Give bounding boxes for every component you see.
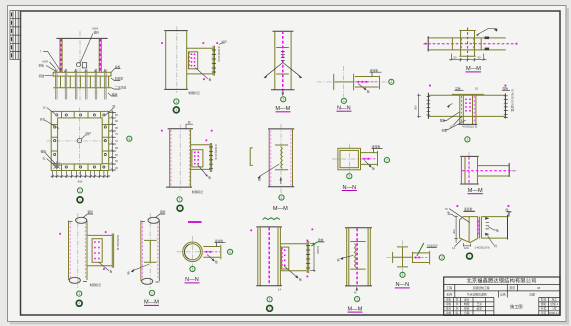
svg-text:1: 1 [356,297,358,301]
anchor bolt shafts [56,69,105,100]
right leader [488,227,496,230]
svg-text:工程: 工程 [446,286,452,290]
svg-text:660: 660 [78,180,83,184]
top-right leader [156,214,166,218]
detail 13: pipe column M-M with inner I-section [127,210,166,306]
leader from shear plate [198,165,208,177]
svg-text:N—N: N—N [342,185,356,191]
svg-text:1: 1 [466,138,468,142]
plate right [203,247,220,258]
leader from shear plate [196,68,208,79]
svg-text:10-M20(10.9)高强: 10-M20(10.9)高强 [511,89,515,112]
centerline [176,27,178,94]
centerline [77,213,79,288]
svg-text:1: 1 [348,175,350,179]
svg-text:北京福鑫腾达钢结构有限公司: 北京福鑫腾达钢结构有限公司 [466,277,536,285]
svg-text:开孔: 开孔 [40,118,46,122]
down arrow [282,92,285,96]
svg-text:4-M20(10.9): 4-M20(10.9) [462,125,477,129]
column bottom [166,186,192,188]
svg-text:图号: 图号 [510,286,516,290]
green circle [281,97,286,102]
svg-text:设计: 设计 [464,298,470,302]
pipe walls [141,221,160,282]
H-beam flanges [334,74,354,91]
centerlines [332,144,368,175]
svg-text:肋: 肋 [258,177,261,181]
magenta dashed inside walls [70,223,85,279]
svg-text:14: 14 [452,246,456,250]
detail 4: M-M section brace member [264,31,303,112]
svg-text:比例: 比例 [500,292,506,296]
plate right [412,253,429,263]
svg-text:校核: 校核 [464,307,470,311]
svg-text:10@100: 10@100 [427,244,438,248]
beam end plate with bolt ticks [210,143,211,172]
center column stub below [460,95,476,124]
svg-text:制图标记: 制图标记 [192,190,203,194]
svg-text:板: 板 [367,89,370,93]
svg-text:50: 50 [453,56,457,60]
anchor detail starburst in corner cell [53,161,62,170]
svg-text:2: 2 [390,80,392,84]
svg-text:1: 1 [78,292,80,296]
green circle below [190,266,195,271]
label above with elbow [215,243,226,247]
inner lines [260,227,278,286]
svg-text:板: 板 [208,176,211,180]
column top cap [164,30,188,32]
magenta dashed inside walls [143,223,158,280]
svg-text:M—M: M—M [468,188,483,194]
top-right leader [186,124,193,129]
svg-text:1: 1 [402,273,404,277]
detail 3: column with beam bracket, row 2 [161,121,218,212]
beam flanges [191,145,211,170]
svg-text:施工: 施工 [552,298,558,302]
inner line [464,156,466,184]
top-right leader [83,214,93,218]
column sides with weld dashes [170,129,191,187]
green circle below [341,98,346,103]
centerline magenta bold [268,228,270,286]
leader left [342,255,353,258]
right end plate with ticks and vertical text [504,94,506,119]
svg-text:8-M20: 8-M20 [316,246,320,254]
plate end bar [429,251,431,265]
top cap [268,128,294,130]
svg-text:100: 100 [464,246,469,250]
magenta horizontal centerline [424,43,517,45]
svg-text:2008-1-7: 2008-1-7 [549,311,560,315]
left dim [455,216,458,243]
dark green bubble [467,253,473,259]
svg-text:1: 1 [282,98,284,102]
magenta dashed edges [271,131,291,186]
bolts 2 cols [465,99,471,112]
magenta dots [59,231,106,270]
green leader [417,243,437,256]
member sides [269,129,292,187]
magenta centerline with bolts [414,257,430,259]
bold magenta centerline [282,31,284,92]
svg-text:2: 2 [441,256,443,260]
svg-text:第页: 第页 [541,311,547,315]
diagonal leader [358,84,365,90]
bolt marks right [485,37,490,51]
beam lines right [481,217,507,239]
stray label underline [188,221,202,223]
svg-text:N—N: N—N [185,277,199,283]
left dimension [417,94,421,119]
stiffener ribs below plate [56,76,109,88]
svg-text:制图: 制图 [464,302,470,306]
H-beam web [335,81,354,83]
detail 8: M-M column with beam right [460,152,517,194]
beam end bar [508,163,510,177]
anchor bolt nuts above plate [54,69,106,72]
plate end bar [220,245,222,260]
svg-text:施工图: 施工图 [510,303,523,310]
column bottom [256,285,282,287]
svg-text:1: 1 [151,291,153,295]
svg-text:张: 张 [456,298,459,302]
svg-text:M24: M24 [86,131,92,135]
stiffener ticks [350,242,365,270]
detail 12: pipe column with beam bracket [59,210,120,306]
detail 1: column base elevation with anchor bolts [39,27,127,102]
title block [444,277,560,316]
centerline [179,125,181,191]
green circle right [384,158,389,163]
plate right [361,153,378,165]
gusset plate [355,77,379,88]
column bottom [164,88,188,90]
svg-text:1: 1 [343,99,345,103]
leaders below left [444,112,467,130]
svg-text:肋: 肋 [506,208,509,212]
svg-text:日期: 日期 [464,311,470,315]
detail 16: M-M member with weld zigzag [337,228,372,313]
green circle right [439,255,444,260]
leader [207,255,214,261]
magenta horizontal centerline [462,170,516,172]
beam left end bar [427,36,429,51]
right leaders and labels [108,69,121,96]
svg-text:8-M20(10.9): 8-M20(10.9) [217,47,221,62]
diagonal leader [260,164,280,176]
svg-text:1: 1 [281,196,283,200]
grout line [53,87,111,89]
magenta vertical centerline [468,157,470,184]
svg-text:阶段: 阶段 [541,298,547,302]
svg-text:08: 08 [537,286,541,290]
green circle below [347,174,352,179]
magenta dots [429,85,506,87]
cruciform vertical web [402,247,404,267]
pipe ring [183,242,203,262]
bottom dimension extension lines and dim line [53,171,108,178]
svg-text:王某: 王某 [477,302,483,306]
bottom-left leaders [45,152,56,166]
svg-text:底板: 底板 [115,65,121,69]
svg-text:李: 李 [456,302,459,306]
column top cut line [56,37,107,39]
svg-text:1张: 1张 [552,307,556,311]
weld zigzag [355,244,357,268]
signature strip (top-left rotated table) [10,11,21,60]
svg-text:4b: 4b [447,211,451,215]
svg-text:盖板: 盖板 [455,87,461,91]
cruciform horizontal web [393,256,413,258]
magenta centerline with bolts [362,158,378,160]
magenta dots [250,229,313,278]
svg-text:板: 板 [372,166,375,170]
pipe walls [69,221,88,281]
detail 11: N-N box tube with plate [332,144,390,191]
magenta dashed verticals [462,96,475,124]
green circle and dark bubble [177,197,182,202]
svg-text:锚栓: 锚栓 [41,150,47,154]
bolt plate with bolts [92,239,102,263]
left end bar with ticks [427,93,429,119]
beam end plate [112,234,113,268]
svg-text:连接板: 连接板 [464,207,473,211]
svg-text:肋: 肋 [113,105,116,109]
weld zigzag [281,147,283,169]
centerlines [177,236,210,268]
detail 7: beam splice over column [414,85,515,142]
svg-text:孔: 孔 [43,157,46,161]
svg-text:8-M20(10.9): 8-M20(10.9) [116,235,120,250]
column flange right with weld dashes [99,38,101,72]
end plate verticals [479,217,481,239]
svg-text:连接板: 连接板 [372,145,381,149]
magenta end dots [425,43,517,45]
channel section float left [250,148,253,166]
svg-text:审核: 审核 [446,302,452,306]
green circle [149,290,154,295]
svg-text:M—M: M—M [144,300,159,306]
svg-text:10: 10 [43,105,47,109]
svg-text:焊: 焊 [337,258,340,262]
beam end bar [507,215,509,240]
green circle [279,195,284,200]
bolt holes top band [54,114,107,168]
svg-text:某钢结构工程: 某钢结构工程 [473,286,490,290]
leader [99,262,109,270]
svg-text:M—M: M—M [273,206,288,212]
plate end bar [377,151,379,166]
flange end bars [393,247,413,267]
column sides [258,227,281,286]
beam flanges [87,235,112,265]
base plate [53,72,111,76]
detail 5: N-N section H-beam with gusset [317,66,394,112]
svg-text:审批: 审批 [446,311,452,315]
bolt ladder ticks on centerline [281,52,285,61]
detail 15: column with beam bracket bottom [250,218,324,312]
detail 14: N-N pipe section with plate [177,236,233,283]
svg-text:二次浇灌: 二次浇灌 [115,86,126,90]
stiffener ticks [275,145,288,170]
leader [284,266,298,278]
svg-text:刘: 刘 [456,307,459,311]
centerline [149,213,151,288]
svg-text:板: 板 [496,228,499,232]
centerlines [317,66,387,97]
outer square [51,111,108,170]
box inner crease [468,217,470,242]
beam horizontal lines [428,38,506,50]
bottom leaders and labels [455,240,462,247]
svg-text:肋板: 肋板 [318,238,324,242]
magenta dashed on plate [477,220,479,235]
left mid leader [45,120,60,129]
bottom arrow and mark [356,287,358,291]
label above with elbow [370,72,382,76]
green circle right [228,249,233,254]
plate end bar [379,76,381,90]
top-left leader [47,108,56,115]
column flange left with weld dashes [60,38,62,72]
member sides [275,31,291,89]
bottom cap [345,285,372,287]
beam flanges [429,95,505,116]
svg-text:制图标记: 制图标记 [189,91,200,95]
shear plate with bolts [192,150,203,167]
svg-text:1: 1 [179,198,181,202]
green circle and dark bubble [77,291,82,296]
detail 2: column with beam bracket, top row [161,27,227,113]
dark detail bubble [77,197,83,203]
leader with arrows top right [477,29,497,35]
column sides [461,156,477,184]
green circle right [389,79,394,84]
inner arc dark [184,245,188,260]
svg-text:日期: 日期 [529,292,535,296]
top break ellipse [141,221,145,223]
svg-text:栓: 栓 [494,244,497,248]
bottom line [271,89,295,91]
svg-text:N—N: N—N [395,282,409,288]
top cover plate thicker [452,93,484,95]
detail 17: N-N cruciform section with plate [387,241,445,289]
right dimension lines [109,113,116,171]
centerlines [47,108,114,175]
svg-text:审定: 审定 [446,298,452,302]
centerline [468,152,470,187]
top cap [273,30,294,32]
svg-text:钢管: 钢管 [160,210,166,214]
column end ticks [459,31,476,57]
svg-text:4: 4 [128,137,130,141]
svg-text:锚栓: 锚栓 [112,92,118,96]
beam end plate with ticks [307,241,308,273]
column vertical lines [461,31,475,57]
green break line at top [263,218,281,220]
svg-text:14: 14 [278,288,282,292]
shear plate [281,247,288,269]
column top cap [256,226,282,228]
svg-text:300: 300 [452,229,456,234]
svg-text:腹板: 腹板 [440,119,446,123]
top leader elbow [372,148,383,152]
svg-text:端板: 端板 [503,87,509,91]
magenta bold centerline [356,229,358,286]
dark up arrow bottom [280,177,282,181]
shear plate with bolts [189,52,198,69]
gusset box outline [460,217,478,243]
inner square [58,118,103,164]
green circle 1 below [77,188,82,193]
svg-text:节点详图总说明: 节点详图总说明 [467,292,487,296]
green circle 4 at right [127,136,132,141]
svg-text:连接板: 连接板 [370,68,379,72]
detail 1 plan: base plate ring with bolt holes [40,105,132,203]
green circle below [400,272,405,277]
svg-text:共页: 共页 [541,307,547,311]
svg-text:梁: 梁 [127,271,130,275]
svg-text:结施-1: 结施-1 [550,302,558,306]
bolt head circle with leader [76,63,80,67]
diagonal leader [133,264,150,271]
svg-text:钢管: 钢管 [88,210,94,214]
magenta vertical centerline [467,28,469,60]
bottom cap [268,186,294,188]
svg-text:1-M20(10.9): 1-M20(10.9) [475,246,490,250]
top right green leader [311,242,324,246]
brace diagonal leader [449,209,470,223]
svg-text:板: 板 [110,270,113,274]
svg-text:名称: 名称 [446,292,452,296]
weld dots [161,130,213,176]
svg-text:板: 板 [209,78,212,82]
member sides [347,228,371,286]
svg-text:1: 1 [175,100,177,104]
svg-text:制图标记: 制图标记 [90,283,101,287]
top-right leader [105,108,114,116]
weld dots magenta [161,42,218,80]
magenta centerline with bolts [356,81,379,83]
column caps [460,156,479,184]
centerline [79,31,81,101]
svg-text:柱: 柱 [188,121,191,125]
detail 6: M-M cruciform beam-column crossing [424,28,518,73]
box tube outer [338,148,361,170]
inner lines [349,228,368,286]
svg-text:8-M20(10.9): 8-M20(10.9) [214,145,218,160]
beam flanges [187,48,214,74]
magenta dashes on column flanges [462,38,474,49]
center hole and leader [77,138,82,143]
box tube inner [340,150,358,167]
svg-text:M—M: M—M [466,66,481,72]
green circle [355,297,360,302]
green circle and dark bubble [267,297,272,302]
green circle [465,137,470,142]
svg-text:锚栓: 锚栓 [94,31,100,35]
svg-text:垫板: 垫板 [442,129,448,133]
splice plates [452,38,481,50]
leader [365,161,371,167]
svg-text:赵某: 赵某 [477,307,483,311]
bottom break ellipse [83,281,87,283]
svg-text:10: 10 [475,87,479,91]
top cap [345,227,372,229]
magenta centerline with bolts [204,251,221,253]
svg-text:2: 2 [386,158,388,162]
